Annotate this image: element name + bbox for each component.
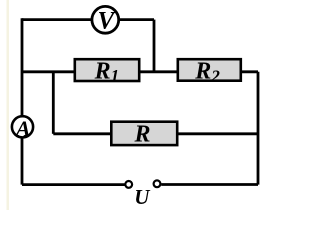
svg-text:R: R — [133, 121, 150, 147]
svg-text:V: V — [97, 8, 116, 35]
svg-text:A: A — [14, 116, 31, 141]
svg-text:U: U — [134, 185, 151, 209]
